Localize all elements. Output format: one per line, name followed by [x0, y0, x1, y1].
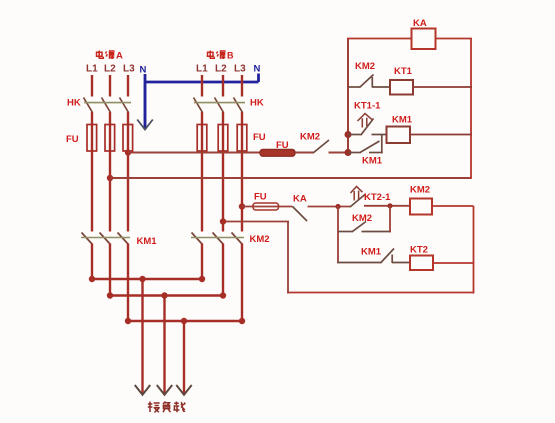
wire: L2A top stub — [109, 75, 111, 97]
contactor KM1 main pole 3 blade — [118, 233, 129, 245]
wire: L2B fuse to KM2 contact — [222, 151, 224, 232]
wire: L1A switch to fuse — [91, 112, 93, 125]
wire: loop2 left return rail — [287, 222, 289, 294]
svg-text:FU: FU — [66, 134, 79, 145]
wire: KM2 pole3 output down — [241, 244, 243, 323]
svg-text:N: N — [140, 65, 147, 76]
wire: L3A top stub — [127, 75, 129, 97]
contact KM2 self-hold NO: blade — [352, 222, 366, 232]
wire: merge bus phase 2 (y=295.5) — [109, 294, 224, 296]
svg-text:KM1: KM1 — [362, 156, 383, 167]
contact KT1-1 delayed: blade — [361, 119, 374, 135]
arrowhead: neutral to load — [137, 120, 153, 130]
wire: L3B switch to fuse — [241, 112, 243, 125]
wire: L1A top stub — [91, 75, 93, 97]
node: loop1 rail junction at y=134.5 — [345, 131, 352, 138]
wire: load feeder 1 — [141, 279, 143, 394]
switch HK source A pole 3 blade — [120, 98, 129, 113]
wire: KM2 coil to right rail loop2 — [432, 205, 474, 207]
contactor KM1 linkage bar — [81, 237, 130, 239]
contactor KM2 linkage bar — [191, 237, 244, 239]
contactor KM1 main pole 1 blade — [82, 233, 93, 245]
svg-text:L2: L2 — [215, 64, 227, 75]
svg-text:L1: L1 — [196, 64, 208, 75]
wire: KM2 pole2 output down — [222, 244, 224, 297]
svg-text:KM2: KM2 — [300, 132, 320, 143]
wire: neutral drop to load (blue) — [144, 82, 147, 128]
wire: loop2 branch rail down — [337, 207, 339, 263]
svg-text:KM1: KM1 — [137, 236, 158, 247]
wire: KM1 pole1 output down — [91, 244, 93, 281]
wire: bus 3 from L3B to FU2 — [242, 206, 293, 208]
contactor KM1 main pole 2 blade — [100, 233, 111, 245]
relay coil KT1 — [390, 80, 413, 95]
switch HK source B pole 1 blade — [194, 98, 203, 113]
fuse FU2 (control circuit 2) — [253, 203, 279, 210]
svg-text:KA: KA — [293, 194, 307, 205]
switch HK source A linkage bar — [84, 102, 131, 104]
arrowhead: load feeder 2 — [157, 385, 172, 395]
svg-text:KT2-1: KT2-1 — [364, 192, 391, 203]
contact KM2 NC: seat bar — [371, 77, 373, 88]
svg-text:HK: HK — [250, 98, 264, 109]
svg-text:KA: KA — [413, 18, 427, 29]
contact KM1 NC interlock: seat bar — [391, 255, 393, 264]
relay coil KA — [412, 29, 436, 50]
wire: load feeder 3 — [183, 321, 185, 394]
wire: bus 1 from KM2 aux contact to loop1 rail — [329, 152, 350, 154]
contact KM2 self-hold NO: left lead — [338, 231, 353, 233]
wire: L1B fuse to KM2 contact — [201, 151, 203, 232]
arrowhead: load feeder 1 — [135, 385, 150, 395]
wire: KM1 pole2 output down — [109, 244, 111, 297]
node: loop1 rail junction at y=152.5 — [345, 149, 352, 156]
fuse FU A phase 3 — [123, 124, 133, 152]
wire: L3A fuse to KM1 contact — [127, 151, 129, 232]
contact KT2-1 delayed: hollow up arrow — [351, 187, 363, 201]
node: return tap dot on L2B — [220, 218, 226, 224]
relay coil KM1 (loop1) — [387, 127, 411, 144]
node: loop2 branch junction — [335, 204, 340, 209]
wire: KM1 pole3 output down — [127, 244, 129, 323]
control loop 1: left rail — [347, 39, 349, 154]
fuse FU A phase 2 — [105, 124, 115, 152]
wire: control bus 2 tap from L2A (dot) — [107, 175, 113, 181]
wire: L1B switch to fuse — [201, 112, 203, 125]
contact KM1 NC: right lead to KT2 — [392, 262, 411, 264]
contact KT1-1: right lead to KM1 coil — [372, 134, 388, 136]
svg-text:KT1: KT1 — [394, 66, 413, 77]
control loop 1: right rail — [470, 39, 472, 180]
svg-text:KM1: KM1 — [392, 115, 413, 126]
svg-text:KM2: KM2 — [250, 234, 270, 245]
relay coil KT2 — [410, 256, 433, 271]
wire: L3B top stub — [241, 75, 243, 97]
svg-text:KT1-1: KT1-1 — [354, 101, 381, 112]
contact KM1 self-hold NO: blade — [360, 141, 380, 153]
svg-text:FU: FU — [253, 132, 266, 143]
fuse FU B phase 1 — [197, 124, 207, 152]
wire: KA contact to KT2-1 — [308, 206, 352, 208]
svg-text:L3: L3 — [234, 64, 246, 75]
wire: merge bus phase 1 (y=279) — [91, 278, 203, 280]
wire: L2B top stub — [222, 75, 224, 97]
contact KM1 self-hold NO: left lead — [348, 152, 361, 154]
svg-text:FU: FU — [276, 140, 289, 151]
contact KM1 NC interlock: left lead — [337, 262, 382, 264]
svg-text:HK: HK — [67, 98, 81, 109]
fuse FU B phase 3 — [237, 124, 247, 152]
switch HK source B pole 3 blade — [234, 98, 243, 113]
contact KM1 self-hold NO: right lead — [369, 152, 383, 154]
control loop 1: top wire right of KA — [436, 38, 473, 40]
junction dots on merge buses — [89, 276, 245, 324]
wire: self-hold riser to KM1 coil lead — [381, 135, 383, 154]
switch HK source A pole 1 blade — [84, 98, 93, 113]
wire: L3B fuse to KM2 contact — [241, 151, 243, 232]
svg-text:L1: L1 — [86, 64, 98, 75]
label: to load (接负载) — [148, 402, 186, 413]
contactor KM2 main pole 3 blade — [232, 233, 243, 245]
wire: KM2 self-hold riser — [389, 206, 391, 233]
node: self-hold riser junction loop2 — [387, 203, 392, 208]
node: bus3 tap on L3B (dot) — [239, 203, 245, 209]
svg-text:L3: L3 — [123, 64, 135, 75]
control loop 2: bottom bus — [287, 292, 474, 294]
contactor KM2 main pole 1 blade — [192, 233, 203, 245]
wire: merge bus phase 3 (y=321) — [127, 320, 243, 322]
wire: L1B top stub — [201, 75, 203, 97]
contact KT1-1 delayed: hollow up arrow — [358, 114, 373, 128]
label: source B (电源B) — [208, 51, 235, 61]
switch HK source A pole 2 blade — [102, 98, 111, 113]
wire: load feeder 2 — [163, 296, 165, 395]
fuse FU B phase 2 — [218, 124, 228, 152]
wire: L2A switch to fuse — [109, 112, 111, 125]
contact KA NO: blade — [293, 207, 308, 222]
control loop 1: top wire left of KA — [347, 38, 412, 40]
switch HK source B pole 2 blade — [215, 98, 224, 113]
contact KM2 NC: blade — [360, 75, 374, 88]
wire: return tap from L2B — [223, 221, 289, 223]
wire: KM2 pole1 output down — [201, 244, 203, 281]
wire: control bus 1 tap from L3A (dot) — [125, 149, 131, 155]
contact KM2 auxiliary NO (on bus 1) blade — [313, 140, 329, 153]
wire: KT2 coil to right rail loop2 — [433, 262, 474, 264]
contact KM2 NC: left lead — [348, 86, 360, 88]
svg-text:FU: FU — [254, 192, 267, 203]
svg-text:KT2: KT2 — [410, 245, 428, 256]
contactor KM2 main pole 2 blade — [213, 233, 224, 245]
svg-text:N: N — [254, 64, 261, 75]
switch HK source B linkage bar — [194, 102, 245, 104]
wire: bus 1 from FU1 to KM2 aux contact — [295, 152, 314, 154]
wire: KT2-1 to KM2 coil — [364, 205, 411, 207]
wire: L3A switch to fuse — [127, 112, 129, 125]
contact KM2 self-hold NO: right lead — [362, 231, 392, 233]
wire: L2A fuse to KM1 contact — [109, 151, 111, 232]
wire: L1A fuse to KM1 contact — [91, 151, 93, 232]
wire: L2B switch to fuse — [222, 112, 224, 125]
svg-text:B: B — [227, 51, 234, 61]
fuse FU1 (control circuit 1) — [260, 149, 295, 156]
wire: control bus 2 (y=178) across to right rail — [110, 177, 471, 179]
contact KM1 NC interlock: blade — [381, 249, 395, 264]
wire: KT1 to right rail — [413, 86, 472, 88]
fuse FU A phase 1 — [87, 124, 97, 152]
wire: KM1 coil to right rail — [410, 134, 472, 136]
contact KT1-1 delayed: left lead — [348, 134, 362, 136]
wire: control bus 1 (y=152.5) from L3A to FU1 — [128, 152, 261, 154]
svg-text:KM1: KM1 — [361, 247, 382, 258]
contact KT2-1 delayed: blade — [350, 194, 366, 207]
contact KM2 NC: right lead to KT1 — [372, 86, 391, 88]
svg-text:KM2: KM2 — [352, 213, 372, 224]
label: source A (电源A) — [97, 51, 124, 62]
svg-text:L2: L2 — [104, 64, 116, 75]
control loop 2: right rail — [473, 206, 475, 294]
svg-text:KM2: KM2 — [355, 61, 375, 72]
wire: neutral bus (blue) from A to B — [144, 74, 259, 83]
arrowhead: load feeder 3 — [176, 385, 191, 395]
svg-text:A: A — [116, 51, 123, 62]
relay coil KM2 (loop2) — [410, 199, 432, 215]
svg-text:KM2: KM2 — [410, 185, 430, 196]
